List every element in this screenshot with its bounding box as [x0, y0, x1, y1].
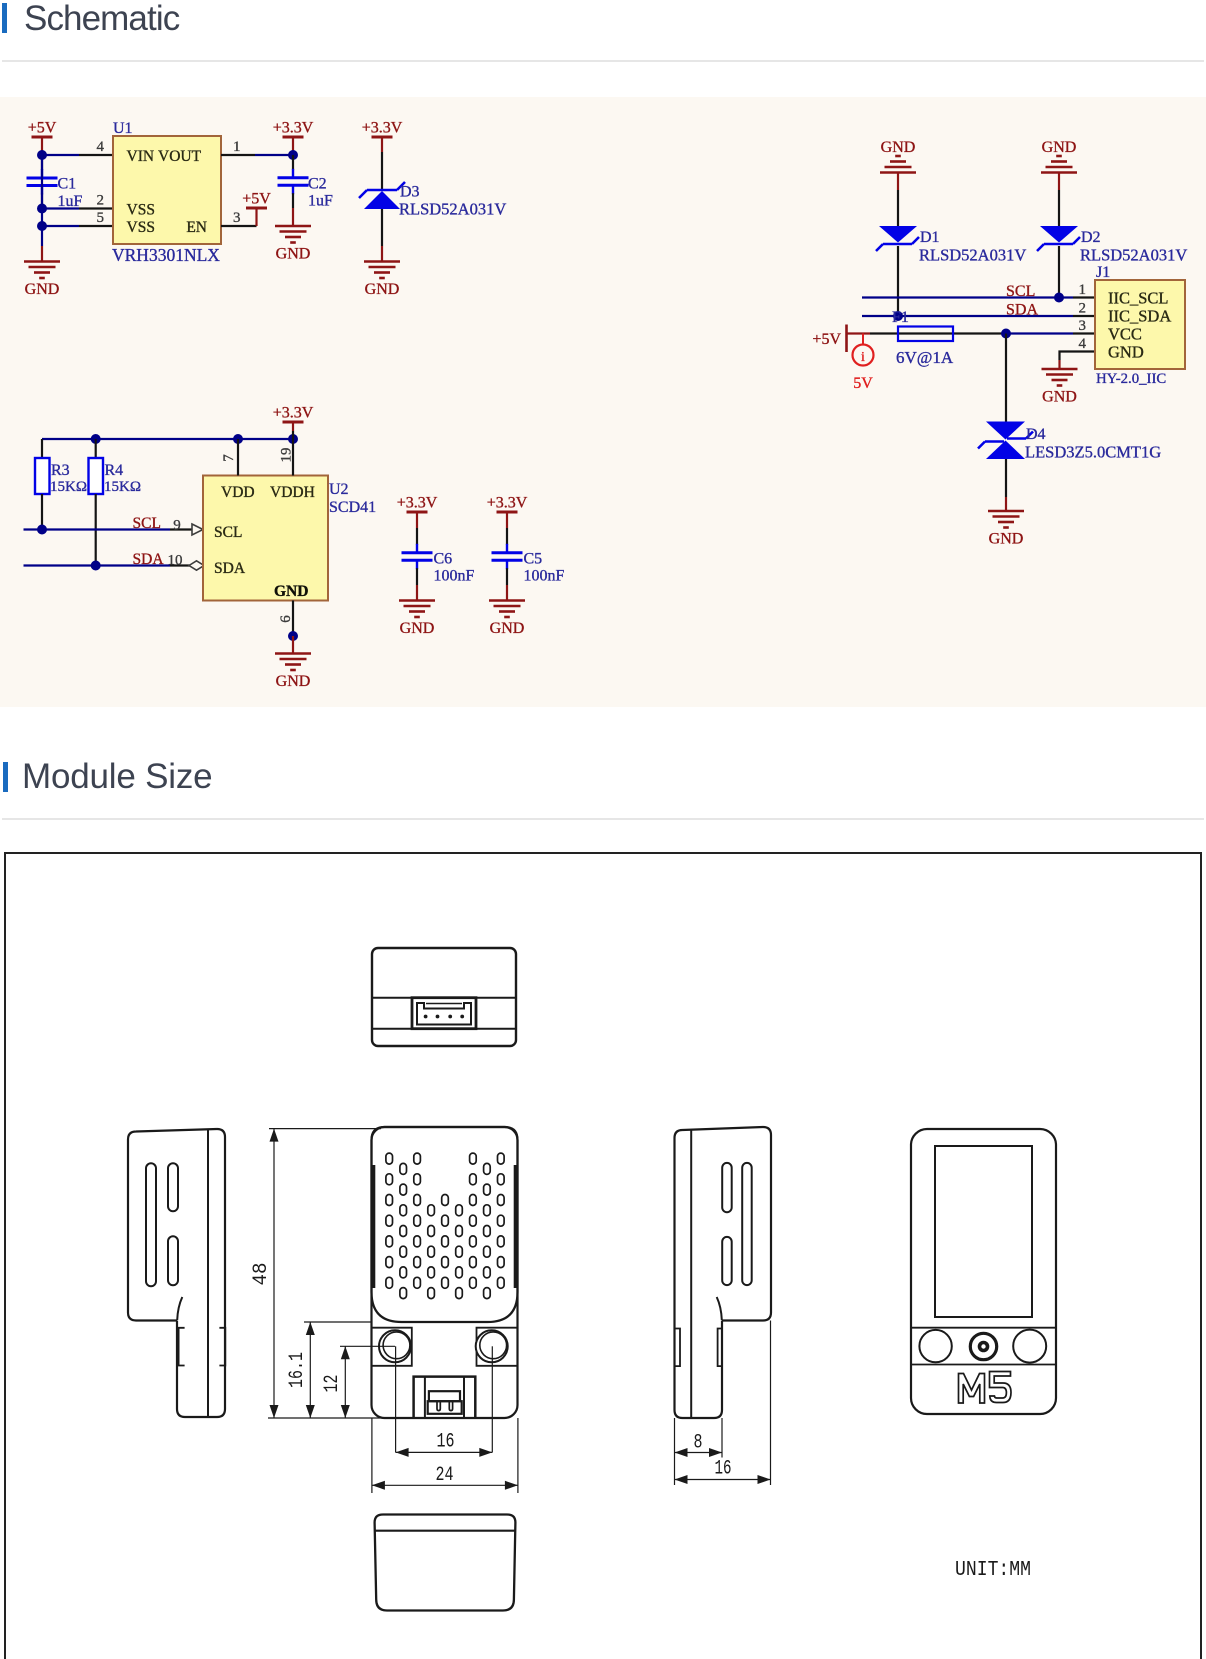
svg-text:5V: 5V	[853, 375, 873, 392]
connector J1 HY-2.0 body	[1095, 280, 1185, 369]
schematic panel background	[0, 97, 1206, 707]
svg-text:GND: GND	[25, 281, 60, 298]
power +3.3V	[273, 405, 314, 432]
front view: right hole notch	[477, 1328, 518, 1366]
svg-text:GND: GND	[1042, 389, 1077, 406]
dimension 24	[372, 1418, 518, 1493]
svg-text:15KΩ: 15KΩ	[50, 479, 87, 495]
svg-text:6V@1A: 6V@1A	[896, 348, 954, 367]
junction node C1/VSS pin2	[37, 204, 47, 214]
svg-text:U1: U1	[113, 120, 133, 137]
U1 pin 3 EN	[221, 210, 257, 226]
dimension 16 (side)	[675, 1321, 771, 1486]
svg-text:C6: C6	[434, 550, 453, 567]
svg-text:4: 4	[97, 139, 105, 155]
front view: right mounting hole	[476, 1330, 508, 1362]
ground GND (D1) (flipped)	[880, 139, 916, 173]
svg-text:GND: GND	[274, 583, 308, 600]
junction node VCC/D4	[1001, 329, 1011, 339]
svg-text:VDD: VDD	[221, 484, 255, 501]
svg-text:12: 12	[321, 1375, 344, 1393]
svg-text:EN: EN	[186, 219, 207, 236]
capacitor C1	[27, 155, 83, 210]
svg-text:3: 3	[1079, 318, 1087, 334]
svg-text:RLSD52A031V: RLSD52A031V	[919, 246, 1026, 265]
junction node D1/SDA	[893, 311, 903, 321]
U2 pin 7 VDD	[221, 439, 238, 476]
ground GND (D2) (flipped)	[1041, 139, 1077, 173]
svg-text:24: 24	[436, 1464, 454, 1487]
svg-text:VOUT: VOUT	[158, 148, 202, 165]
svg-text:100nF: 100nF	[524, 568, 565, 585]
front view: grove port opening	[414, 1377, 476, 1418]
U1 pin 5	[79, 210, 113, 226]
drawing frame border	[5, 853, 1201, 1659]
back view: screen recess	[935, 1146, 1032, 1317]
junction node VSS pin5 / GND	[37, 221, 47, 231]
front view: thick side edges	[371, 1165, 375, 1288]
J1 pin 3	[1073, 318, 1095, 334]
wire +5V through fuse to VCC	[870, 332, 1006, 334]
ground GND (C5)	[489, 601, 525, 638]
ground GND (D3)	[364, 262, 400, 299]
right side view: long slot	[742, 1163, 752, 1285]
current probe 5V	[853, 334, 874, 393]
svg-text:+3.3V: +3.3V	[487, 495, 528, 512]
wire D2 to SCL	[1058, 246, 1060, 298]
svg-text:C2: C2	[308, 175, 327, 192]
svg-text:GND: GND	[365, 281, 400, 298]
junction node R4/SDA	[91, 561, 101, 571]
svg-text:+5V: +5V	[812, 331, 841, 348]
junction node R3/SCL	[37, 525, 47, 535]
U2 pin 19 VDDH	[279, 431, 295, 476]
svg-text:SDA: SDA	[1006, 302, 1038, 319]
svg-text:R3: R3	[51, 462, 70, 479]
svg-text:+5V: +5V	[242, 191, 271, 208]
svg-text:RLSD52A031V: RLSD52A031V	[1080, 246, 1187, 265]
svg-text:SDA: SDA	[133, 551, 165, 568]
U1 pin 4	[79, 139, 113, 155]
left side view: long slot	[146, 1163, 156, 1286]
wire R3 to SCL net	[41, 494, 43, 530]
right side view: face seam	[690, 1130, 692, 1418]
top view: connector pins	[424, 1015, 428, 1019]
top view: grove port opening	[412, 998, 476, 1029]
wire to VSS pin 5	[42, 225, 79, 227]
wire D1 to SDA	[897, 246, 899, 316]
wire D4 to ground	[1005, 459, 1007, 497]
svg-text:1: 1	[1079, 282, 1087, 298]
front view: module outline	[372, 1127, 518, 1418]
top view: case seam lines	[373, 997, 515, 999]
wire R4 to SDA net	[95, 494, 97, 566]
J1 pin 2	[1073, 301, 1095, 317]
top rail wire	[42, 438, 293, 440]
svg-text:F1: F1	[892, 309, 909, 326]
U1 pin 2	[79, 193, 113, 209]
svg-text:19: 19	[279, 448, 295, 463]
J1 pin 4	[1073, 336, 1095, 352]
left side view: short slot bottom	[168, 1236, 178, 1285]
svg-text:1: 1	[233, 139, 241, 155]
svg-text:1uF: 1uF	[308, 193, 333, 210]
svg-text:+3.3V: +3.3V	[362, 120, 403, 137]
svg-text:D3: D3	[400, 184, 420, 201]
svg-text:IIC_SCL: IIC_SCL	[1108, 289, 1169, 308]
wire VCC to J1	[1006, 332, 1073, 334]
fuse F1	[898, 327, 953, 342]
section heading: Module Size	[3, 762, 8, 792]
wire C2 to ground	[292, 208, 294, 226]
TVS diode D1	[876, 226, 919, 251]
bottom view: seam line	[375, 1530, 515, 1532]
wire SDA to J1	[862, 315, 1073, 317]
wire D3 to ground	[381, 209, 383, 246]
top view: module top outline	[372, 948, 516, 1046]
svg-text:IIC_SDA: IIC_SDA	[1108, 307, 1171, 326]
wire pin6 to ground	[292, 636, 294, 654]
power +3.3V	[397, 495, 438, 529]
svg-text:J1: J1	[1096, 264, 1110, 281]
divider	[2, 60, 1204, 62]
U2 pin 9 SCL arrow	[173, 518, 203, 536]
left side view: clip notch left	[179, 1328, 185, 1366]
junction node rail/R4	[91, 434, 101, 444]
op-amp U1 VRH3301NLX body	[113, 136, 221, 244]
svg-text:9: 9	[173, 518, 181, 534]
svg-text:D2: D2	[1081, 229, 1101, 246]
svg-text:4: 4	[1079, 336, 1087, 352]
TVS diode D4 bidirectional	[978, 422, 1033, 460]
resistor R3	[35, 458, 50, 494]
svg-text:100nF: 100nF	[434, 568, 475, 585]
front view: connector pin slots	[437, 1402, 440, 1411]
capacitor C6	[402, 528, 475, 585]
svg-text:8: 8	[694, 1432, 703, 1455]
svg-text:VCC: VCC	[1108, 325, 1142, 344]
svg-text:LESD3Z5.0CMT1G: LESD3Z5.0CMT1G	[1025, 443, 1161, 462]
wire C5 to ground	[506, 585, 508, 601]
dimension 48	[250, 1129, 384, 1418]
front view: grove port inner walls	[424, 1377, 426, 1418]
svg-text:15KΩ: 15KΩ	[104, 479, 141, 495]
power +3.3V	[487, 495, 528, 529]
front view: grille cover outline	[372, 1127, 518, 1322]
top view: grove connector housing	[417, 1003, 471, 1025]
U2 SCD41 body	[203, 476, 328, 601]
svg-text:GND: GND	[490, 620, 525, 637]
junction node +3.3V/VOUT/C2	[288, 150, 298, 160]
section heading: Schematic	[2, 3, 7, 33]
wire +5V to VIN	[42, 154, 79, 156]
ground GND (U2)	[275, 654, 311, 691]
bottom view: module outline	[375, 1515, 516, 1611]
capacitor C5	[492, 528, 565, 585]
dimension 16 (hole spacing)	[396, 1346, 493, 1457]
wire C6 to ground	[416, 585, 418, 601]
U2 pin 10 SDA arrow	[168, 553, 205, 571]
svg-text:16.1: 16.1	[286, 1352, 309, 1388]
svg-text:C5: C5	[524, 550, 543, 567]
svg-text:SCL: SCL	[133, 515, 161, 532]
ground GND (J1)	[1042, 369, 1078, 406]
dimension 12	[321, 1346, 395, 1418]
right side view: short slot bottom	[722, 1237, 732, 1285]
svg-text:VDDH: VDDH	[270, 484, 315, 501]
junction node D2/SCL	[1054, 293, 1064, 303]
left side view: face seam	[207, 1130, 209, 1417]
svg-text:D1: D1	[920, 229, 940, 246]
zener diode D3	[359, 182, 405, 209]
svg-text:GND: GND	[400, 620, 435, 637]
svg-text:HY-2.0_IIC: HY-2.0_IIC	[1096, 371, 1166, 387]
left side view: clip notch right	[219, 1328, 225, 1366]
J1 pin 1	[1073, 282, 1095, 298]
right side view: short slot top	[722, 1163, 732, 1212]
svg-text:GND: GND	[989, 531, 1024, 548]
svg-text:+3.3V: +3.3V	[273, 120, 314, 137]
power +3.3V	[362, 120, 403, 153]
svg-text:5: 5	[97, 210, 105, 226]
svg-text:GND: GND	[881, 139, 916, 156]
left side view: short slot top	[168, 1163, 178, 1211]
left side view: outline	[177, 1129, 225, 1417]
wire ground to D1	[897, 173, 899, 191]
svg-text:SCL: SCL	[1006, 283, 1035, 300]
power +3.3V	[273, 120, 314, 156]
wire VOUT to +3.3V node	[255, 154, 293, 156]
svg-text:GND: GND	[276, 246, 311, 263]
front view: connector cap	[429, 1391, 460, 1401]
svg-text:C1: C1	[58, 176, 77, 193]
svg-text:10: 10	[168, 553, 183, 569]
front view: left mounting hole	[379, 1330, 411, 1362]
ground GND (C1)	[24, 262, 60, 299]
svg-text:GND: GND	[276, 673, 311, 690]
back view: module outline	[911, 1129, 1056, 1414]
wire SCL to J1	[862, 296, 1073, 298]
junction node rail/+3.3V	[288, 434, 298, 444]
svg-text:RLSD52A031V: RLSD52A031V	[399, 200, 506, 219]
back view: right hole	[1013, 1330, 1046, 1363]
back view: button band	[912, 1327, 1055, 1329]
capacitor C2	[278, 155, 334, 210]
svg-text:GND: GND	[1042, 139, 1077, 156]
front view: left hole notch	[372, 1328, 412, 1366]
svg-text:VRH3301NLX: VRH3301NLX	[112, 245, 220, 265]
svg-text:6: 6	[278, 615, 294, 623]
svg-text:+5V: +5V	[28, 120, 57, 137]
right side view: clip notch right	[718, 1329, 723, 1367]
svg-text:SCL: SCL	[214, 524, 242, 541]
wire C1 to VSS pin 2	[42, 207, 79, 209]
svg-text:R4: R4	[105, 462, 124, 479]
U1 pin 1 VOUT	[221, 139, 255, 155]
divider	[2, 818, 1204, 820]
front view: speaker grille holes	[386, 1153, 504, 1299]
svg-text:16: 16	[437, 1431, 455, 1454]
svg-text:2: 2	[97, 193, 105, 209]
dimension 16.1	[286, 1322, 371, 1418]
svg-text:VSS: VSS	[127, 219, 155, 236]
svg-text:D4: D4	[1026, 426, 1046, 443]
wire rail corner down to R3	[41, 439, 43, 458]
junction node +5V/C1/VIN	[37, 150, 47, 160]
svg-text:+3.3V: +3.3V	[397, 495, 438, 512]
back view: M5 logo	[959, 1372, 1012, 1404]
svg-text:3: 3	[233, 210, 241, 226]
power +5V	[242, 191, 271, 227]
wire SCL net	[24, 528, 171, 530]
ground GND (C6)	[399, 601, 435, 638]
svg-text:16: 16	[715, 1458, 732, 1481]
power port +5V	[812, 325, 870, 353]
svg-text:SDA: SDA	[214, 560, 246, 577]
wire VCC junction down to D4	[1005, 334, 1007, 422]
wire R4 lead top	[95, 439, 97, 458]
right side view: outline	[675, 1130, 723, 1418]
back view: reset button	[970, 1333, 996, 1359]
U2 pin 6 GND	[278, 601, 294, 637]
svg-text:GND: GND	[1108, 343, 1144, 362]
power +5V	[28, 120, 57, 156]
ground GND (C2)	[275, 226, 311, 263]
svg-text:VSS: VSS	[127, 202, 155, 219]
svg-text:48: 48	[250, 1263, 273, 1286]
wire +3.3V to D3	[381, 152, 383, 190]
right side view: clip notch left	[675, 1329, 680, 1367]
wire ground to D2	[1058, 173, 1060, 191]
dimension 8	[675, 1418, 723, 1458]
TVS diode D2	[1037, 226, 1080, 251]
svg-text:+3.3V: +3.3V	[273, 405, 314, 422]
svg-text:U2: U2	[329, 481, 349, 498]
wire junction down to ground	[41, 155, 43, 226]
junction node rail/VDD	[233, 434, 243, 444]
svg-text:i: i	[861, 350, 865, 365]
junction node pin6/gnd	[288, 631, 298, 641]
ground GND (D4)	[988, 511, 1024, 548]
svg-text:2: 2	[1079, 301, 1087, 317]
resistor R4	[89, 458, 104, 494]
svg-text:VIN: VIN	[127, 148, 155, 165]
front view: connector body	[428, 1401, 462, 1414]
svg-text:SCD41: SCD41	[329, 499, 376, 516]
svg-text:UNIT:MM: UNIT:MM	[955, 1559, 1031, 1582]
svg-text:7: 7	[221, 454, 237, 462]
wire SDA net	[24, 564, 171, 566]
wire J1 pin4 to ground	[1060, 352, 1074, 361]
back view: left hole	[919, 1330, 951, 1362]
